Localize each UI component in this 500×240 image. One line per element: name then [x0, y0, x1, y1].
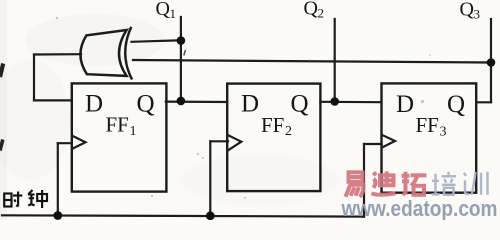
svg-text:Q: Q	[447, 91, 465, 118]
wire clock drop FF2 vertical	[209, 141, 211, 216]
wire feedback vertical	[33, 55, 35, 101]
wire clock stub FF3	[364, 143, 382, 145]
wire FF1 Q to FF2 D	[166, 100, 227, 103]
junction dot FF1 Q / Q1	[177, 97, 186, 106]
wire XOR bottom input from Q3 (long)	[133, 60, 491, 63]
char 培	[432, 172, 457, 195]
flip-flop FF2 box	[227, 84, 320, 192]
wire XOR output	[34, 53, 81, 55]
wire FF3 Q output	[476, 101, 491, 103]
svg-text:D: D	[241, 91, 259, 118]
svg-text:3: 3	[440, 125, 447, 140]
svg-text:D: D	[85, 90, 103, 117]
svg-text:2: 2	[318, 6, 325, 21]
label 时钟 (clock), drawn strokes	[4, 190, 47, 208]
char 钟	[28, 190, 47, 208]
char 拓	[402, 172, 427, 195]
char 易	[346, 172, 364, 197]
scan artifact: specks	[56, 17, 431, 199]
scan artifact: left-edge dash upper	[0, 64, 3, 78]
scan artifact: tick near Q1 crossing	[184, 50, 186, 56]
svg-text:Q: Q	[291, 91, 309, 118]
svg-text:Q: Q	[137, 90, 155, 117]
wire clock drop FF1 vertical	[57, 143, 59, 215]
char 训	[464, 172, 488, 195]
svg-text:2: 2	[285, 124, 292, 139]
svg-text:www.edatop.com: www.edatop.com	[341, 196, 498, 220]
junction dot clock FF2	[206, 211, 215, 220]
wire clock bus	[2, 215, 364, 216]
wire feedback to D of FF1	[34, 99, 72, 101]
junction dot Q3 / long wire	[487, 58, 496, 67]
char 时	[4, 192, 22, 207]
junction dot clock FF1	[53, 211, 62, 220]
clock triangle FF2	[228, 135, 241, 150]
XOR gate G1 body	[80, 30, 126, 76]
wire clock drop FF3 vertical	[363, 144, 365, 217]
wire clock stub FF1	[58, 142, 72, 144]
flip-flop FF3 box	[382, 83, 477, 192]
svg-text:3: 3	[474, 7, 481, 22]
junction dot FF2 Q / Q2	[330, 97, 339, 106]
svg-text:FF: FF	[261, 113, 284, 137]
wire FF2 Q to FF3 D	[320, 101, 381, 104]
wire Q3 vertical	[490, 19, 492, 102]
svg-text:FF: FF	[106, 113, 129, 137]
svg-text:D: D	[396, 91, 414, 118]
svg-text:Q: Q	[156, 0, 171, 20]
wire Q2 vertical	[334, 19, 336, 102]
svg-text:FF: FF	[416, 113, 439, 137]
svg-text:1: 1	[170, 6, 177, 21]
watermark 易迪拓 (red solid)	[346, 171, 427, 197]
XOR gate G1 input double-curve	[125, 28, 131, 78]
char 迪	[372, 171, 396, 195]
svg-text:Q: Q	[304, 0, 319, 20]
scan artifact: left-edge dash lower	[0, 140, 3, 151]
watermark 培训 (light blue outline)	[432, 172, 488, 195]
junction dot Q1/XOR input	[177, 36, 186, 45]
wire Q1 vertical	[180, 17, 182, 102]
wire clock stub FF2	[210, 140, 228, 142]
clock triangle FF1	[73, 136, 86, 149]
svg-text:Q: Q	[460, 0, 475, 20]
svg-text:1: 1	[130, 124, 137, 139]
clock triangle FF3	[382, 135, 395, 147]
wire XOR top input from Q1	[132, 40, 181, 42]
flip-flop FF1 box	[72, 83, 167, 191]
